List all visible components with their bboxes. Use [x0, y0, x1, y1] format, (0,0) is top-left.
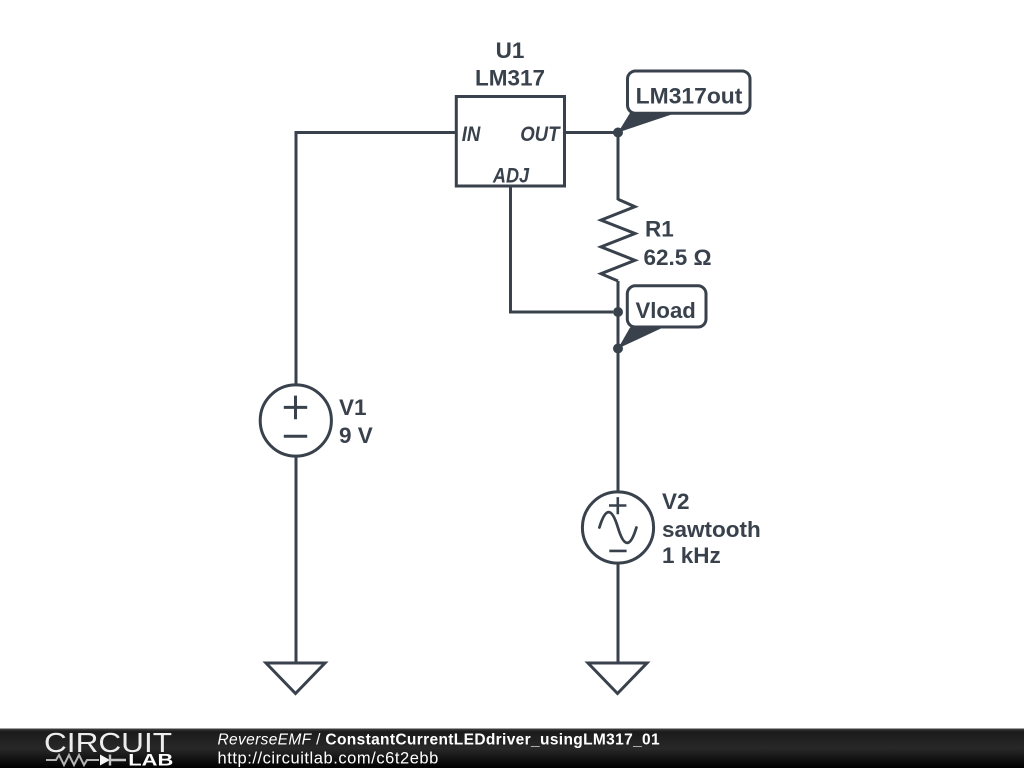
wire top horizontal from V1 branch to IN pin: [296, 131, 457, 134]
svg-text:V2: V2: [662, 489, 690, 514]
wire ADJ pin down and right to node: [511, 186, 614, 312]
label U1 LM317: [475, 38, 545, 90]
svg-text:Vload: Vload: [636, 298, 696, 323]
svg-text:IN: IN: [462, 123, 481, 146]
node dot Vload: [613, 344, 623, 354]
svg-text:OUT: OUT: [520, 123, 561, 146]
svg-text:LM317: LM317: [475, 65, 545, 90]
wire left vertical down to V1: [295, 131, 298, 385]
resistor R1: [601, 199, 635, 281]
voltage source V1: [260, 385, 331, 456]
label R1 62.5 ohm: [644, 217, 712, 271]
svg-text:http://circuitlab.com/c6t2ebb: http://circuitlab.com/c6t2ebb: [218, 750, 439, 768]
CircuitLab logo: [44, 727, 173, 768]
node flag LM317out: [618, 71, 750, 133]
wire V2 bottom to right ground: [617, 563, 620, 663]
node dot LM317out: [613, 128, 623, 138]
footer bar: [0, 729, 1024, 768]
svg-text:U1: U1: [496, 38, 525, 63]
svg-text:62.5 Ω: 62.5 Ω: [644, 245, 712, 270]
source V2 sawtooth: [582, 492, 653, 563]
junction dot at ADJ node: [613, 307, 623, 317]
wire V1 bottom to left ground: [295, 456, 298, 663]
ground (left): [266, 663, 325, 694]
wire OUT pin to node: [565, 131, 619, 134]
regulator U1 LM317 box: [456, 97, 564, 188]
node flag Vload: [618, 286, 706, 349]
svg-text:ReverseEMF / ConstantCurrentLE: ReverseEMF / ConstantCurrentLEDdriver_us…: [218, 732, 661, 749]
svg-text:LAB: LAB: [128, 750, 173, 768]
svg-text:R1: R1: [645, 217, 674, 242]
svg-text:1 kHz: 1 kHz: [662, 543, 721, 568]
label V2 sawtooth 1 kHz: [662, 489, 761, 568]
svg-text:ADJ: ADJ: [492, 165, 530, 188]
logo resistor-diode squiggle: [46, 755, 99, 765]
footer title text: [218, 732, 661, 768]
label V1 9 V: [339, 395, 373, 448]
svg-text:9 V: 9 V: [339, 423, 373, 448]
svg-text:V1: V1: [339, 395, 367, 420]
svg-text:sawtooth: sawtooth: [662, 517, 761, 542]
svg-text:LM317out: LM317out: [636, 84, 743, 109]
ground (right): [588, 663, 647, 694]
wire node down to resistor R1: [617, 133, 620, 201]
wire resistor bottom down to V2: [617, 281, 620, 493]
